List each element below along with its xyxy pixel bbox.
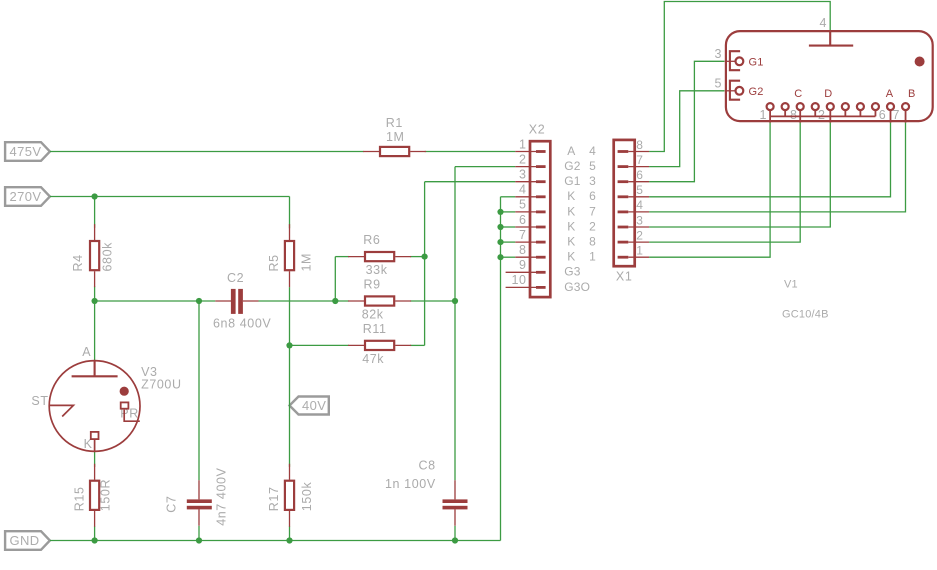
wire R6 left (335, 256, 349, 258)
tube V3 envelope (49, 361, 140, 452)
wire X1 pin3 to cathode D (649, 123, 830, 227)
svg-text:A: A (567, 144, 575, 158)
net label 475V (5, 142, 50, 161)
connector X2 pin 8 (515, 243, 596, 264)
svg-text:270V: 270V (10, 189, 42, 204)
tube V1 cathode circle 3 (797, 103, 804, 110)
svg-text:1: 1 (519, 137, 527, 151)
wire X2 pin8 stub (501, 256, 516, 258)
wire X1 pin4 to cathode B (649, 123, 905, 212)
svg-text:40V: 40V (302, 398, 326, 413)
svg-text:8: 8 (589, 235, 596, 249)
wire C7 bottom (198, 526, 200, 541)
svg-text:1: 1 (589, 250, 596, 264)
svg-text:C8: C8 (419, 459, 436, 473)
tube V1 envelope (726, 31, 933, 121)
svg-text:47k: 47k (362, 352, 384, 366)
tube V1 cathode circle 10 (902, 103, 909, 110)
wire X1 pin6 to G1 (649, 61, 724, 181)
svg-text:R15: R15 (72, 486, 86, 511)
svg-text:5: 5 (714, 76, 722, 90)
svg-text:150R: 150R (99, 479, 113, 511)
svg-text:V1: V1 (784, 279, 798, 291)
wire X1 pin2 to cathode C (649, 123, 800, 243)
svg-text:G2: G2 (564, 159, 581, 173)
svg-text:150k: 150k (300, 482, 314, 512)
svg-text:7: 7 (893, 108, 901, 122)
svg-text:7: 7 (636, 153, 643, 167)
wire R4 bottom to node (94, 286, 96, 301)
svg-text:6: 6 (636, 168, 643, 182)
svg-text:475V: 475V (10, 144, 42, 159)
wire X2 pin6 stub (501, 226, 516, 228)
svg-text:2: 2 (636, 228, 643, 242)
net label 40V (290, 397, 329, 415)
tube V1 cathode circle 5 (827, 103, 834, 110)
svg-text:X1: X1 (616, 270, 633, 284)
wire X2 pin3 stub (425, 181, 516, 183)
tube V1 grid G2 (725, 81, 764, 100)
svg-text:33k: 33k (366, 263, 388, 277)
svg-text:D: D (824, 88, 832, 100)
svg-text:6n8 400V: 6n8 400V (213, 317, 271, 331)
wire R6 left riser (334, 257, 336, 301)
svg-text:4: 4 (820, 16, 828, 30)
junction GND/C7 (196, 537, 202, 543)
junction R4/C2 node (92, 298, 98, 304)
tube V1 anode pin 4 (809, 31, 853, 46)
svg-text:1: 1 (760, 108, 768, 122)
connector X2 frame (530, 141, 550, 297)
wire node row to C2 (95, 300, 216, 302)
svg-text:1M: 1M (299, 253, 313, 272)
svg-text:G1: G1 (749, 57, 764, 69)
svg-text:R5: R5 (267, 254, 281, 271)
svg-text:G2: G2 (749, 86, 764, 98)
tube V3 Z700U labels (31, 345, 181, 451)
wire R17 bottom (289, 526, 291, 540)
svg-text:R6: R6 (363, 233, 380, 247)
svg-text:6: 6 (879, 108, 887, 122)
wire 270V drop to R5 (289, 197, 291, 229)
junction GND/R15 (92, 537, 98, 543)
connector X2 pin 2 (515, 152, 596, 173)
svg-text:4: 4 (519, 183, 527, 197)
svg-text:C: C (794, 88, 802, 100)
wire X2 pin2 stub (455, 166, 515, 168)
wire V3 anode wire (94, 301, 96, 361)
resistor R9 (348, 278, 411, 322)
svg-text:9: 9 (519, 258, 527, 272)
svg-text:G3O: G3O (564, 280, 590, 294)
wire X2 pin4 stub (501, 196, 516, 198)
tube V1 gas dot (915, 57, 925, 67)
svg-text:1n 100V: 1n 100V (385, 477, 436, 491)
svg-text:ST: ST (31, 394, 48, 408)
junction 270V/R4 (92, 193, 98, 199)
svg-text:3: 3 (636, 213, 643, 227)
junction K bus pin7 (497, 239, 503, 245)
connector X2 pin 7 (515, 228, 596, 249)
wire R6 right (410, 256, 425, 258)
tube V3 primer PR (121, 402, 140, 421)
wire GND rail (50, 540, 501, 542)
svg-text:B: B (908, 88, 916, 100)
svg-text:Z700U: Z700U (141, 377, 182, 391)
connector X1 pin 7 (618, 153, 650, 167)
svg-text:K: K (567, 219, 575, 233)
junction C7 tap (196, 298, 202, 304)
resistor R17 (267, 464, 314, 527)
svg-text:G3: G3 (564, 265, 581, 279)
svg-text:K: K (567, 204, 575, 218)
connector X1 pin 1 (618, 244, 650, 258)
svg-text:3: 3 (519, 168, 527, 182)
connector X1 pin 8 (618, 138, 650, 152)
svg-text:2: 2 (519, 152, 527, 166)
tube V1 cathode circle 7 (857, 103, 864, 110)
svg-text:3: 3 (589, 174, 596, 188)
svg-text:R4: R4 (71, 254, 85, 271)
resistor R6 (348, 233, 411, 277)
svg-text:8: 8 (636, 138, 643, 152)
svg-text:2: 2 (589, 219, 596, 233)
connector X2 pin 3 (515, 168, 596, 189)
connector X1 pin 5 (618, 183, 650, 197)
svg-text:R9: R9 (364, 278, 381, 292)
resistor R11 (348, 322, 411, 366)
wire X1 pin8 to V1 anode (649, 2, 830, 152)
svg-text:5: 5 (519, 198, 527, 212)
junction GND/C8 (452, 537, 458, 543)
connector X2 pin 5 (515, 198, 596, 219)
connector X2 pin 9 (506, 258, 581, 279)
wire X2 pin5 stub (501, 211, 516, 213)
svg-text:G1: G1 (564, 174, 581, 188)
svg-text:5: 5 (589, 159, 596, 173)
svg-text:X2: X2 (529, 123, 546, 137)
svg-text:7: 7 (519, 228, 527, 242)
resistor R4 (71, 224, 114, 287)
tube V1 GC10/4B labels (714, 16, 900, 321)
svg-text:4: 4 (589, 144, 596, 158)
svg-text:680k: 680k (100, 242, 114, 272)
wire R11 right (410, 344, 425, 346)
svg-text:7: 7 (589, 204, 596, 218)
junction R5/R11 node (286, 342, 292, 348)
junction R9/X2-2/C8 node (452, 298, 458, 304)
svg-text:K: K (567, 250, 575, 264)
junction R6/R11/X2-3 node (422, 254, 428, 260)
wire K bus riser to GND (500, 197, 502, 541)
wire X1 pin5 to cathode A (649, 123, 890, 197)
svg-text:5: 5 (636, 183, 643, 197)
tube V1 cathode circle 6 (842, 103, 849, 110)
svg-text:K: K (567, 189, 575, 203)
resistor R15 (72, 464, 112, 527)
wire 270V drop to R4 (94, 197, 96, 228)
wire R11 left (290, 344, 349, 346)
connector X2 pin 6 (515, 213, 596, 234)
capacitor C8 (385, 459, 468, 526)
tube V1 cathode bus (770, 115, 875, 117)
junction R6/R9 node (332, 298, 338, 304)
wire 270V rail (50, 196, 290, 198)
svg-text:1M: 1M (386, 130, 405, 144)
wire X2 pin3 riser (424, 182, 426, 346)
tube V1 cathode circle 2 (782, 103, 789, 110)
wire X2 pin2 riser to C8 (454, 167, 456, 481)
tube V1 cathode letters (794, 88, 915, 100)
svg-text:8: 8 (790, 108, 798, 122)
wire C2 to R9 (259, 300, 349, 302)
svg-text:C2: C2 (227, 271, 244, 285)
junction K bus pin6 (497, 224, 503, 230)
connector X1 pin 6 (618, 168, 650, 182)
svg-text:4: 4 (636, 198, 643, 212)
svg-text:3: 3 (714, 47, 722, 61)
svg-text:82k: 82k (362, 308, 384, 322)
wire C8 bottom (454, 526, 456, 541)
tube V3 starter ST (49, 405, 73, 416)
svg-text:A: A (886, 88, 894, 100)
connector X1 frame (614, 140, 635, 266)
svg-text:K: K (567, 235, 575, 249)
svg-text:4n7 400V: 4n7 400V (214, 467, 228, 525)
connector X2 (506, 123, 597, 298)
tube V3 gas dot (120, 387, 129, 396)
svg-text:8: 8 (519, 243, 527, 257)
svg-text:GND: GND (10, 533, 40, 548)
svg-text:R1: R1 (386, 116, 403, 130)
junction GND/R17 (286, 537, 292, 543)
wire R9 right (410, 300, 455, 302)
svg-text:R11: R11 (363, 322, 387, 336)
tube V1 cathode circle 9 (887, 103, 894, 110)
connector X1 pin 2 (618, 228, 650, 242)
junction K bus pin8 (497, 254, 503, 260)
wire X2 pin7 stub (501, 241, 516, 243)
tube V1 cathode circle 4 (812, 103, 819, 110)
net label 270V (5, 187, 50, 206)
capacitor C7 (165, 467, 229, 525)
wire R15 bottom (94, 526, 96, 540)
connector X1 pin 4 (618, 198, 650, 212)
connector X2 pin 10 (506, 273, 591, 294)
wire X1 pin1 to cathode 1 (649, 123, 770, 258)
tube V1 cathode circle 8 (872, 103, 879, 110)
capacitor C2 (213, 271, 271, 331)
svg-text:2: 2 (818, 108, 826, 122)
svg-text:GC10/4B: GC10/4B (782, 309, 829, 321)
svg-text:6: 6 (519, 213, 527, 227)
svg-text:C7: C7 (165, 496, 179, 513)
svg-text:6: 6 (589, 189, 596, 203)
resistor R1 (363, 116, 426, 156)
connector X1 pin 3 (618, 213, 650, 227)
svg-text:1: 1 (636, 244, 643, 258)
resistor R5 (267, 224, 314, 287)
connector X2 pin 4 (515, 183, 596, 204)
connector X1 (614, 138, 649, 284)
junction K bus pin5 (497, 209, 503, 215)
wire C7 drop (198, 301, 200, 480)
svg-text:R17: R17 (267, 486, 281, 511)
wire 475V rail left (50, 151, 364, 153)
tube V3 anode (72, 361, 118, 377)
net label GND (5, 531, 50, 550)
svg-text:A: A (82, 345, 91, 359)
wire R5 to R17 (289, 287, 291, 467)
wire V3 cathode wire (94, 452, 96, 467)
connector X2 pin 1 (515, 137, 596, 158)
svg-text:10: 10 (511, 273, 526, 287)
tube V1 grid G1 (725, 51, 764, 70)
tube V3 cathode K (91, 432, 99, 452)
tube V1 cathode circle 1 (767, 103, 774, 110)
wire 475V rail right to X2 pin1 (425, 151, 516, 153)
wire X1 pin7 to G2 (649, 91, 724, 167)
